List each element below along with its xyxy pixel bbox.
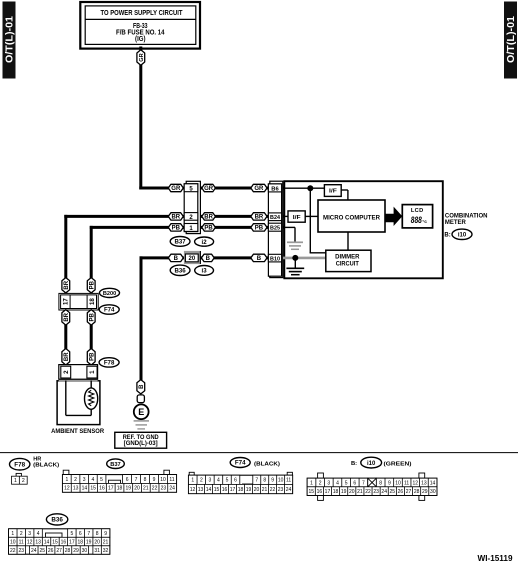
svg-text:1: 1: [191, 478, 194, 484]
svg-text:19: 19: [86, 539, 92, 545]
wire label GR vertical capsule: [137, 50, 145, 65]
svg-text:2: 2: [319, 480, 322, 486]
svg-text:E: E: [138, 407, 144, 417]
svg-text:3: 3: [28, 531, 31, 537]
svg-text:7: 7: [255, 478, 258, 484]
connector F74 pin diagram: [189, 472, 293, 493]
svg-text:B25: B25: [270, 226, 280, 232]
svg-text:16: 16: [222, 487, 228, 493]
svg-text:B200: B200: [103, 291, 116, 297]
svg-text:10: 10: [160, 477, 166, 483]
svg-text:GR: GR: [254, 186, 264, 192]
svg-text:21: 21: [262, 487, 268, 493]
svg-text:11: 11: [286, 478, 291, 484]
wire label BR vertical capsule top: [62, 278, 70, 293]
svg-text:18: 18: [117, 486, 123, 492]
svg-text:TO POWER SUPPLY CIRCUIT: TO POWER SUPPLY CIRCUIT: [101, 8, 183, 17]
svg-text:13: 13: [198, 487, 204, 493]
combination meter box: [284, 181, 443, 278]
label (BLACK) F74: [254, 461, 280, 467]
svg-text:B: B: [139, 384, 145, 389]
wire label BR vertical capsule low: [62, 349, 70, 366]
svg-text:22: 22: [152, 486, 158, 492]
svg-text:4: 4: [336, 480, 339, 486]
label HR (BLACK): [33, 457, 59, 469]
wire label PB vertical capsule low: [87, 349, 95, 366]
label (GREEN): [384, 461, 412, 467]
wire separator line: [0, 452, 518, 454]
svg-text:5: 5: [345, 480, 348, 486]
thermistor element: [85, 388, 98, 409]
svg-text:6: 6: [234, 478, 237, 484]
wire label B capsule row4 right: [201, 254, 214, 262]
svg-text:B:: B:: [444, 233, 450, 239]
svg-text:O/T(L)-01: O/T(L)-01: [506, 16, 517, 63]
svg-text:MICRO COMPUTER: MICRO COMPUTER: [323, 214, 380, 221]
svg-text:21: 21: [357, 489, 363, 495]
connector i10 pin diagram: [307, 473, 437, 500]
connector oval i3: [195, 266, 214, 276]
svg-text:5: 5: [70, 531, 73, 537]
svg-text:B: B: [257, 256, 262, 262]
svg-text:17: 17: [108, 486, 114, 492]
svg-text:24: 24: [286, 487, 292, 493]
svg-text:13: 13: [421, 480, 427, 486]
connector B200/F74 shell: [59, 293, 98, 310]
wire I/F to micro computer left: [305, 215, 318, 217]
wire label BR capsule row2 right: [202, 213, 216, 221]
wire label B capsule row4 left: [168, 254, 183, 262]
svg-text:18: 18: [77, 539, 83, 545]
svg-text:2: 2: [22, 478, 25, 484]
svg-text:F74: F74: [104, 307, 115, 314]
svg-text:16: 16: [99, 486, 105, 492]
wire label B vertical capsule: [137, 380, 145, 394]
wire B row horizontal: [140, 256, 286, 259]
fuse F/B FUSE NO.14 power supply box FB-33: [80, 2, 200, 49]
svg-text:17: 17: [230, 487, 236, 493]
svg-text:20: 20: [189, 256, 196, 262]
svg-text:PB: PB: [255, 226, 264, 232]
svg-text:B6: B6: [271, 186, 279, 192]
svg-text:8: 8: [379, 480, 382, 486]
label WI-15119: [478, 553, 513, 563]
svg-text:15: 15: [214, 487, 220, 493]
svg-text:18: 18: [89, 298, 96, 305]
svg-text:4: 4: [217, 478, 220, 484]
wire GR inside meter: [284, 187, 324, 189]
connector oval B36: [170, 265, 190, 275]
svg-text:18: 18: [238, 487, 244, 493]
svg-text:I/F: I/F: [293, 215, 302, 221]
junction dot B6 branch: [307, 185, 313, 191]
wire B10 shield to dimmer circuit: [283, 257, 327, 260]
svg-text:B37: B37: [110, 462, 120, 468]
connector F78 box: [59, 365, 98, 382]
svg-text:(BLACK): (BLACK): [33, 463, 59, 469]
svg-text:22: 22: [365, 489, 371, 495]
svg-text:BR: BR: [64, 280, 70, 289]
svg-text:1: 1: [310, 480, 313, 486]
svg-text:B36: B36: [51, 517, 63, 524]
I/F box left U3: [288, 211, 305, 222]
pin 2 cell F78: [61, 366, 71, 378]
connector oval B200: [100, 288, 120, 297]
ground B25 shield: [287, 242, 303, 249]
micro computer box U1: [318, 200, 385, 232]
wire label BR vertical capsule mid: [62, 310, 70, 326]
node O/T(L)-01 right page tab: [504, 2, 517, 79]
wire B24 stub to I/F: [284, 215, 288, 217]
svg-text:AMBIENT SENSOR: AMBIENT SENSOR: [51, 428, 104, 435]
label AMBIENT SENSOR: [51, 428, 104, 435]
svg-text:12: 12: [412, 480, 418, 486]
svg-text:WI-15119: WI-15119: [478, 553, 513, 563]
svg-text:29: 29: [73, 548, 79, 554]
wire PB row horizontal: [90, 226, 285, 229]
svg-text:[GND(L)-03]: [GND(L)-03]: [124, 441, 158, 447]
svg-text:10: 10: [395, 480, 401, 486]
svg-text:11: 11: [169, 477, 174, 483]
svg-text:5: 5: [100, 477, 103, 483]
connector i10 column: [268, 184, 281, 276]
svg-text:BR: BR: [204, 215, 213, 221]
connector segment above ground: [137, 395, 144, 403]
pin 17 cell: [63, 295, 71, 309]
svg-text:B10: B10: [270, 256, 280, 262]
svg-text:17: 17: [63, 298, 70, 305]
svg-text:21: 21: [143, 486, 149, 492]
wire label GR capsule row1 right: [202, 184, 216, 192]
svg-text:18: 18: [333, 489, 339, 495]
svg-text:2: 2: [63, 370, 70, 374]
svg-text:25: 25: [390, 489, 396, 495]
svg-text:17: 17: [69, 539, 75, 545]
connector B37/i2 shell: [186, 181, 200, 233]
svg-text:16: 16: [317, 489, 323, 495]
svg-text:PB: PB: [204, 226, 213, 232]
svg-text:B: B: [206, 256, 211, 262]
ground E symbol: [134, 404, 149, 419]
svg-text:9: 9: [388, 480, 391, 486]
svg-text:CIRCUIT: CIRCUIT: [336, 261, 359, 268]
svg-text:4: 4: [91, 477, 94, 483]
pin B25 cell: [268, 223, 281, 231]
svg-text:I/F: I/F: [329, 189, 338, 195]
connector B37/i2 column: [184, 184, 198, 232]
svg-text:(BLACK): (BLACK): [254, 461, 280, 467]
svg-text:14: 14: [430, 480, 436, 486]
wire PB vertical to ambient sensor: [90, 226, 93, 381]
svg-text:7: 7: [87, 531, 90, 537]
svg-text:BR: BR: [255, 215, 264, 221]
node REF TO GND box: [115, 432, 167, 448]
svg-text:28: 28: [414, 489, 420, 495]
svg-text:24: 24: [169, 486, 175, 492]
wire B vertical to ground E: [140, 256, 143, 380]
svg-text:8: 8: [144, 477, 147, 483]
dimmer circuit box U4: [326, 250, 371, 271]
wire I/F to micro computer: [341, 190, 348, 201]
svg-text:23: 23: [161, 486, 167, 492]
svg-text:GR: GR: [204, 186, 214, 192]
wire label PB capsule row3 right: [202, 224, 216, 232]
connector F78 pin diagram: [12, 473, 28, 484]
svg-text:5: 5: [226, 478, 229, 484]
svg-text:3: 3: [327, 480, 330, 486]
svg-text:20: 20: [134, 486, 140, 492]
node O/T(L)-01 left page tab: [3, 2, 16, 79]
svg-text:30: 30: [430, 489, 436, 495]
svg-text:26: 26: [48, 548, 54, 554]
svg-text:10: 10: [10, 539, 16, 545]
svg-text:2: 2: [200, 478, 203, 484]
svg-text:i3: i3: [202, 268, 208, 275]
svg-text:14: 14: [44, 539, 50, 545]
svg-text:21: 21: [103, 539, 109, 545]
wire label PB capsule row3 mid: [251, 224, 267, 232]
wire label PB capsule row3 left: [168, 224, 183, 232]
svg-text:26: 26: [398, 489, 404, 495]
ambient sensor box: [57, 381, 100, 425]
svg-text:20: 20: [94, 539, 100, 545]
pin 5 cell: [184, 184, 198, 193]
connector oval B37 legend: [107, 459, 125, 469]
svg-text:1: 1: [89, 370, 96, 374]
svg-text:9: 9: [271, 478, 274, 484]
svg-text:19: 19: [125, 486, 131, 492]
connector oval F74 legend: [230, 458, 250, 468]
svg-text:GR: GR: [171, 186, 181, 192]
wire label GR capsule row1 mid: [251, 184, 267, 192]
svg-text:22: 22: [10, 548, 16, 554]
svg-text:METER: METER: [445, 220, 467, 226]
svg-text:3: 3: [208, 478, 211, 484]
svg-text:B:: B:: [351, 461, 357, 467]
svg-text:20: 20: [254, 487, 260, 493]
svg-text:2: 2: [74, 477, 77, 483]
wire micro computer to dimmer: [347, 232, 349, 250]
svg-text:19: 19: [246, 487, 252, 493]
svg-text:BR: BR: [171, 215, 180, 221]
svg-text:16: 16: [61, 539, 67, 545]
ground lines under E: [134, 421, 149, 429]
svg-text:B37: B37: [175, 239, 187, 246]
ground B10: [286, 268, 304, 274]
svg-text:23: 23: [278, 487, 284, 493]
svg-text:PB: PB: [89, 280, 95, 289]
svg-text:(GREEN): (GREEN): [384, 461, 412, 467]
wire junction to ground: [294, 258, 296, 268]
svg-text:14: 14: [206, 487, 212, 493]
svg-text:27: 27: [406, 489, 412, 495]
svg-text:(IG): (IG): [135, 36, 146, 43]
connector oval i2: [195, 237, 214, 246]
svg-text:11: 11: [404, 480, 409, 486]
svg-text:22: 22: [270, 487, 276, 493]
wire GR row horizontal: [139, 187, 285, 190]
svg-text:20: 20: [349, 489, 355, 495]
connector oval i10 meter: [444, 229, 472, 239]
wire label PB vertical capsule mid: [87, 310, 95, 326]
connector oval B37: [170, 237, 190, 247]
svg-text:6: 6: [79, 531, 82, 537]
wire label PB vertical capsule top: [87, 278, 95, 293]
I/F box top U2: [324, 185, 341, 197]
svg-text:31: 31: [94, 548, 100, 554]
wire label BR capsule row2 left: [168, 213, 183, 221]
svg-text:19: 19: [341, 489, 347, 495]
svg-text:6: 6: [353, 480, 356, 486]
svg-text:28: 28: [65, 548, 71, 554]
svg-text:15: 15: [52, 539, 58, 545]
svg-text:PB: PB: [89, 313, 95, 322]
svg-text:14: 14: [82, 486, 88, 492]
svg-text:888: 888: [411, 215, 422, 225]
svg-text:i10: i10: [458, 232, 467, 238]
connector oval i10 legend: [351, 457, 382, 468]
arrow micro computer to LCD: [385, 207, 402, 226]
pin 2 cell: [184, 213, 198, 221]
connector oval F78: [99, 358, 119, 367]
pin B6 cell: [268, 184, 281, 193]
label COMBINATION METER: [445, 214, 488, 226]
wire label GR capsule row1 left: [168, 184, 183, 192]
svg-text:PB: PB: [172, 226, 181, 232]
svg-text:23: 23: [18, 548, 24, 554]
svg-text:1: 1: [11, 531, 14, 537]
svg-text:8: 8: [96, 531, 99, 537]
svg-text:7: 7: [135, 477, 138, 483]
svg-text:24: 24: [31, 548, 37, 554]
svg-text:24: 24: [381, 489, 387, 495]
svg-text:9: 9: [104, 531, 107, 537]
svg-text:3: 3: [83, 477, 86, 483]
svg-text:GR: GR: [139, 53, 145, 61]
svg-text:1: 1: [65, 477, 68, 483]
connector B37 pin diagram: [63, 470, 177, 492]
svg-text:15: 15: [90, 486, 96, 492]
svg-text:°c: °c: [422, 219, 427, 225]
wire B25 to ground: [284, 227, 295, 242]
connector i10 shell: [270, 181, 283, 277]
svg-text:2: 2: [20, 531, 23, 537]
pin 1 cell: [184, 224, 198, 233]
wire label BR capsule row2 mid: [251, 213, 267, 221]
svg-text:BR: BR: [64, 352, 70, 361]
svg-text:F74: F74: [235, 460, 246, 467]
svg-text:13: 13: [35, 539, 41, 545]
svg-text:13: 13: [73, 486, 79, 492]
svg-text:12: 12: [190, 487, 196, 493]
connector B200/F74 column: [61, 295, 97, 309]
svg-text:12: 12: [64, 486, 70, 492]
wire label B capsule row4 mid: [251, 254, 267, 262]
svg-text:PB: PB: [89, 352, 95, 361]
svg-text:DIMMER: DIMMER: [335, 253, 360, 260]
svg-text:30: 30: [82, 548, 88, 554]
svg-text:B: B: [174, 256, 179, 262]
svg-text:F78: F78: [14, 461, 25, 468]
svg-text:i2: i2: [202, 239, 208, 246]
svg-text:4: 4: [37, 531, 40, 537]
svg-text:B24: B24: [270, 215, 280, 221]
svg-text:COMBINATION: COMBINATION: [445, 214, 488, 220]
svg-text:25: 25: [39, 548, 45, 554]
svg-text:B36: B36: [175, 267, 187, 274]
wire inside sensor: [66, 381, 91, 416]
pin B24 cell: [268, 213, 281, 221]
connector oval B36 legend: [46, 514, 67, 525]
pin 1 cell F78: [87, 366, 97, 378]
pin 20 cell shaded connector B36/i3: [184, 251, 201, 264]
svg-text:7: 7: [362, 480, 365, 486]
wire BR row horizontal: [64, 215, 285, 218]
pin B10 cell: [268, 254, 281, 262]
svg-text:O/T(L)-01: O/T(L)-01: [5, 16, 16, 63]
wire BR vertical to ambient sensor: [64, 215, 67, 381]
junction dot B10 ground: [292, 255, 298, 261]
svg-text:6: 6: [126, 477, 129, 483]
connector oval F78 legend: [10, 458, 30, 470]
svg-text:32: 32: [103, 548, 109, 554]
svg-text:29: 29: [422, 489, 428, 495]
svg-text:27: 27: [56, 548, 62, 554]
svg-text:15: 15: [308, 489, 314, 495]
connector oval F74: [99, 305, 119, 314]
pin 18 cell: [87, 295, 96, 309]
svg-text:1: 1: [14, 478, 17, 484]
LCD display box: [402, 205, 432, 228]
svg-text:F78: F78: [104, 360, 115, 367]
svg-text:8: 8: [263, 478, 266, 484]
svg-text:BR: BR: [64, 312, 70, 321]
connector B36 pin diagram: [9, 529, 110, 554]
wire from junction to dimmer circuit: [310, 188, 327, 253]
svg-text:17: 17: [325, 489, 331, 495]
svg-text:9: 9: [153, 477, 156, 483]
svg-text:12: 12: [27, 539, 33, 545]
svg-text:11: 11: [19, 539, 24, 545]
svg-text:23: 23: [373, 489, 379, 495]
svg-text:i10: i10: [367, 461, 376, 467]
svg-text:10: 10: [278, 478, 284, 484]
wire GR from fuse box down: [139, 47, 142, 190]
svg-text:LCD: LCD: [411, 208, 424, 214]
